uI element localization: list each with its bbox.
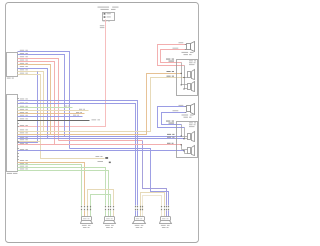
- right door TN wire label 2: [167, 75, 171, 78]
- C2 pin 24 tick: [18, 164, 19, 165]
- left door internal bus 1: [181, 125, 183, 137]
- C2 wire label 13: [20, 138, 24, 141]
- C2 pin 3 tick: [18, 103, 19, 104]
- left mid speaker inline connector pin 3: [110, 206, 111, 207]
- C2 wire label 4: [20, 108, 24, 111]
- C2 wire label 18: [20, 165, 24, 168]
- C2 pin 22 tick: [18, 159, 19, 160]
- right rear speaker body: [161, 217, 171, 221]
- right tweeter cone: [191, 42, 195, 52]
- junction box title text: [98, 7, 110, 8]
- left mid speaker inline connector pin 2: [108, 206, 109, 207]
- right tweeter body: [187, 44, 191, 50]
- wire C1-1 BU drop: [18, 52, 70, 149]
- wire C2 BU to right mid speaker: [18, 101, 138, 206]
- right rear speaker inline connector pin 1: [161, 206, 162, 207]
- wire BU link C1 to C2: [18, 72, 38, 143]
- right mid speaker body: [135, 217, 145, 221]
- right door OG wire label: [167, 70, 171, 73]
- junction box connector label: [103, 20, 107, 21]
- C2 pin 2 tick: [18, 100, 19, 101]
- C2 pin 23 tick: [18, 162, 19, 163]
- C2 pin 20 tick: [18, 153, 19, 154]
- left tweeter body: [187, 106, 191, 112]
- wire C2 BU to left door unit: [18, 136, 182, 138]
- wire C2 OG to left rear speaker: [18, 163, 85, 206]
- left door unit title: [189, 121, 193, 124]
- C1 pin 3 wire label: [20, 55, 24, 58]
- left front door unit box: [177, 122, 198, 158]
- border frame: [6, 3, 199, 243]
- left rear speaker body: [82, 217, 92, 221]
- left tweeter wire label 1: [179, 104, 184, 107]
- wire C2 GN stub: [18, 107, 73, 109]
- left door internal bus 4: [184, 151, 186, 154]
- C1 pin 8 wire label: [20, 72, 24, 75]
- right rear speaker inline connector pin 2: [164, 206, 165, 207]
- right mid speaker inline connector pin 4: [142, 206, 143, 207]
- right door unit title: [189, 59, 193, 62]
- left door internal bus 3: [181, 145, 183, 150]
- wire C2 BU 3 to left door unit: [18, 150, 185, 152]
- C2 wire label 11: [20, 133, 24, 136]
- left rear speaker inline connector pin 4: [90, 206, 91, 207]
- C2 wire label 10: [20, 131, 24, 134]
- wire RD label: [100, 24, 105, 27]
- junction box fuse pin 1: [104, 13, 106, 15]
- junction box fuse pin 2: [104, 16, 106, 18]
- wire C2 GN 2 to left mid speaker: [18, 171, 109, 206]
- right door internal bus 1: [181, 63, 183, 85]
- radio connector C2 label: [7, 173, 12, 174]
- C1 pin 2 tick: [18, 54, 19, 55]
- left tweeter pin ticks: [185, 106, 186, 107]
- wire C2 GN to left rear speaker: [18, 165, 82, 206]
- right door junction dots: [181, 73, 182, 74]
- left door BU wire labels: [166, 120, 170, 123]
- wire C1-2 BU join to C2 row: [18, 55, 65, 137]
- junction box: [103, 13, 115, 21]
- C2 wire label 8: [20, 124, 24, 127]
- C1 pin 5 tick: [18, 64, 19, 65]
- C2 wire label 3: [20, 105, 24, 108]
- radio connector C1: [7, 53, 18, 77]
- wire C2 BK shield: [18, 120, 90, 122]
- left rear speaker jumper TN: [88, 190, 114, 217]
- left mid speaker body: [105, 217, 115, 221]
- left tweeter label: [182, 115, 189, 116]
- left rear speaker wire segments: [81, 211, 83, 217]
- right rear speaker inline connector pin 3: [166, 206, 167, 207]
- wire C1-4 RD join to C2 row: [18, 62, 55, 145]
- right door RD wire labels: [166, 58, 170, 61]
- C1 pin 4 tick: [18, 61, 19, 62]
- wire C2 TN stub: [18, 110, 89, 112]
- C2 pin 1 tick: [18, 98, 19, 99]
- wire RD door unit to right tweeter pin 2: [161, 50, 187, 63]
- C2 pin 16 tick: [18, 142, 19, 143]
- right mid speaker jumper TN: [141, 193, 165, 217]
- C2 pin 8 tick: [18, 120, 19, 121]
- C1 pin 4 wire label: [20, 59, 24, 62]
- right tweeter wire label 2: [173, 47, 179, 50]
- left door junction dots: [181, 135, 182, 136]
- right mid speaker label: [135, 224, 140, 227]
- wire C1-7 TN join to C2 row: [18, 72, 44, 132]
- C2 pin 21 tick: [18, 156, 19, 157]
- C1 pin 8 tick: [18, 74, 19, 75]
- C2 pin 26 tick: [18, 170, 19, 171]
- C2 wire label 12: [20, 136, 24, 139]
- left door speaker 1: [188, 134, 191, 140]
- wire BU door unit to left tweeter pin 1: [158, 107, 187, 128]
- wire C1-3 RD drop: [18, 59, 59, 141]
- right mid speaker inline connector pin 3: [140, 206, 141, 207]
- C2 wire label 7: [20, 117, 24, 120]
- wire C2 OG to right door unit via riser: [18, 74, 182, 135]
- C2 pin 4 tick: [18, 107, 19, 108]
- BK wire label: [92, 118, 97, 121]
- wire BU door unit to left tweeter pin 2: [162, 113, 187, 125]
- C2 wire label 14: [20, 142, 24, 145]
- wire C2 BU 2 to right mid speaker: [18, 104, 136, 206]
- right rear speaker label: [161, 224, 166, 227]
- wire RD junction box to radio C2: [18, 20, 106, 127]
- C2 pin 11 tick: [18, 131, 19, 132]
- C2 wire label 2: [20, 102, 24, 105]
- wire C1-6 BU join to C2 row: [18, 69, 48, 139]
- right mid speaker cone base: [133, 221, 146, 224]
- green wire end label: [98, 160, 104, 163]
- C2 pin 18 tick: [18, 148, 19, 149]
- left rear speaker inline connector pin 2: [84, 206, 85, 207]
- wire RD row to right rear speaker: [59, 140, 143, 142]
- C2 wire label 16: [20, 159, 24, 162]
- wire C2 OG stub: [18, 113, 85, 115]
- C1 pin 1 wire label: [20, 49, 24, 52]
- C2 pin 6 tick: [18, 113, 19, 114]
- C2 pin 17 tick: [18, 144, 19, 145]
- wire C2 GN to left mid speaker: [18, 168, 106, 206]
- left door speaker 1 wires: [182, 136, 188, 138]
- C2 pin 25 tick: [18, 167, 19, 168]
- right rear speaker inline connector pin 4: [168, 206, 169, 207]
- left mid speaker inline connector pin 4: [113, 206, 114, 207]
- wire C2 RD to left door unit: [18, 144, 182, 146]
- left rear speaker label: [82, 224, 87, 227]
- shield drain label and terminator: [96, 155, 100, 158]
- left door speaker 2: [188, 148, 191, 154]
- C1 pin 7 tick: [18, 71, 19, 72]
- wire C1-8 TN shield drain: [18, 75, 105, 159]
- right mid speaker jumper CREAM: [143, 196, 162, 217]
- C2 pin 9 tick: [18, 123, 19, 124]
- wire RD door unit to right tweeter pin 1: [158, 45, 187, 66]
- right door speaker 2 wires: [182, 84, 188, 86]
- right mid speaker inline connector pin 1: [135, 206, 136, 207]
- right rear speaker wire segments: [161, 211, 163, 217]
- C2 wire label 15: [20, 148, 24, 151]
- C2 pin 15 tick: [18, 141, 19, 142]
- left rear speaker inline connector pin 3: [87, 206, 88, 207]
- left rear speaker jumper GN: [91, 195, 111, 217]
- radio connector C1 label: [7, 78, 11, 79]
- C2 wire label 1: [20, 98, 24, 101]
- C2 pin 5 tick: [18, 110, 19, 111]
- wire C1-5 OG join to C2 row: [18, 65, 51, 135]
- right mid speaker wire segments: [135, 211, 137, 217]
- C1 pin 6 tick: [18, 68, 19, 69]
- C2 pin 19 tick: [18, 150, 19, 151]
- C2 pin 13 tick: [18, 136, 19, 137]
- right door speaker 1: [188, 72, 191, 78]
- left mid speaker inline connector pin 1: [105, 206, 106, 207]
- right front door unit box: [177, 60, 198, 96]
- C2 wire label 19: [20, 168, 24, 171]
- left door speaker 2 wires: [182, 149, 188, 151]
- wire C2 BU 2 to left door unit: [18, 138, 185, 140]
- left mid speaker label: [105, 224, 110, 227]
- wire BU row to right rear speaker via jog: [70, 149, 169, 206]
- left rear speaker inline connector pin 1: [81, 206, 82, 207]
- C1 pin 3 tick: [18, 58, 19, 59]
- C2 wire label 5: [20, 111, 24, 114]
- left door internal bus 2: [184, 128, 186, 139]
- C2 wire label 9: [20, 128, 24, 131]
- right mid speaker inline connector pin 2: [137, 206, 138, 207]
- right door speaker 1 wires: [185, 77, 188, 79]
- C1 pin 5 wire label: [20, 62, 24, 65]
- C2 pin 14 tick: [18, 138, 19, 139]
- radio connector C2: [7, 95, 18, 172]
- C2 wire label 6: [20, 114, 24, 117]
- right tweeter pin ticks: [185, 44, 186, 45]
- C2 pin 12 tick: [18, 134, 19, 135]
- wire RD-BU jog to right rear speaker: [143, 141, 167, 206]
- C2 wire label 17: [20, 162, 24, 165]
- left mid speaker wire segments: [105, 211, 107, 217]
- left mid speaker cone base: [104, 221, 116, 224]
- C2 pin 7 tick: [18, 116, 19, 117]
- wire C2 TN to right door unit via riser: [18, 78, 185, 132]
- right tweeter wire label 1: [179, 41, 184, 44]
- left rear speaker cone base: [81, 221, 93, 224]
- right tweeter label: [182, 52, 189, 53]
- left tweeter wire label 2: [173, 109, 179, 112]
- C1 pin 1 tick: [18, 51, 19, 52]
- right rear speaker cone base: [160, 221, 172, 224]
- wire C2 BU stub: [18, 116, 83, 118]
- C1 pin 6 wire label: [20, 65, 24, 68]
- right door speaker 2: [188, 84, 191, 90]
- right door internal bus 2: [184, 66, 186, 89]
- C1 pin 2 wire label: [20, 52, 24, 55]
- C2 pin 10 tick: [18, 126, 19, 127]
- C1 pin 7 wire label: [20, 68, 24, 71]
- left tweeter cone: [191, 104, 195, 115]
- shield tee to C2: [18, 141, 41, 143]
